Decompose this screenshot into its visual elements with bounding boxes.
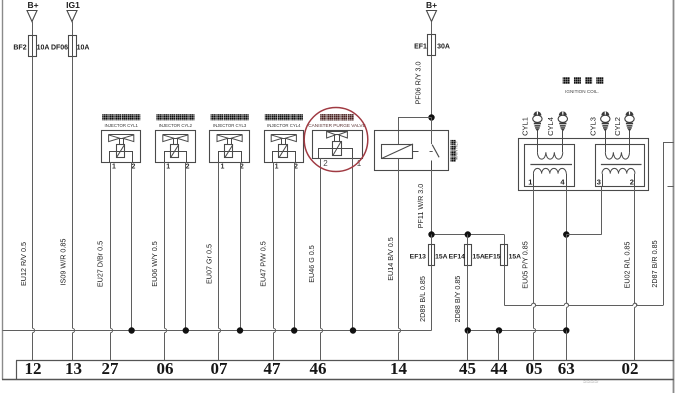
fuse EF15 15A [504, 235, 506, 246]
wire stub to frame edge [668, 186, 674, 188]
injector CYL2 (第二缸喷油器) [156, 114, 162, 120]
frame right border [673, 0, 675, 393]
ignition coil T1 (cylinders 1 and 4) [525, 145, 575, 187]
svg-text:EF15: EF15 [484, 254, 500, 261]
wire EU12 R/V 0.5 (fuse BF2 to ECU pin 12) [32, 57, 34, 329]
junction node bus/pin2 wire 3 [237, 327, 243, 333]
fuse EF1 30A [428, 35, 436, 56]
spark plug CYL3 [601, 111, 609, 115]
svg-text:44: 44 [491, 359, 509, 378]
wire 2D87 B/R 0.85 (up to frame edge) [663, 142, 665, 305]
svg-text:06: 06 [157, 359, 174, 378]
junction node bus/2D88 [465, 327, 471, 333]
svg-text:1: 1 [528, 178, 532, 187]
svg-text:1: 1 [112, 164, 116, 171]
ignition coil assembly outer box [519, 139, 649, 191]
svg-text:2D88 B/Y 0.85: 2D88 B/Y 0.85 [453, 276, 462, 323]
svg-text:2: 2 [131, 164, 135, 171]
fuse EF14 15A [467, 235, 469, 246]
junction node bus/pin2 wire 2 [183, 327, 189, 333]
fuse DF06 10A [69, 36, 77, 57]
wire pin1 of injector CYL4 down to ECU [273, 162, 275, 328]
wire PF11 W/R 3.0 (relay switch output) [431, 170, 433, 235]
svg-text:27: 27 [102, 359, 120, 378]
svg-text:15A: 15A [509, 254, 522, 261]
svg-text:EU12 R/V 0.5: EU12 R/V 0.5 [19, 242, 28, 286]
svg-text:EU02 R/L 0.85: EU02 R/L 0.85 [623, 242, 632, 289]
svg-text:2: 2 [323, 159, 328, 168]
svg-text:B+: B+ [426, 0, 437, 10]
svg-text:PF06 R/Y 3.0: PF06 R/Y 3.0 [414, 61, 423, 104]
wire pin2 of injector CYL3 to supply bus [240, 162, 242, 330]
svg-text:05: 05 [526, 359, 543, 378]
junction node bus/pin44 [496, 327, 502, 333]
svg-text:≈≈≈≈: ≈≈≈≈ [582, 379, 599, 386]
svg-text:IG1: IG1 [66, 0, 80, 10]
supply bus (right segment) [468, 330, 567, 332]
svg-text:2: 2 [186, 164, 190, 171]
frame left border [2, 0, 4, 331]
spark plug CYL4 [559, 111, 567, 115]
injector CYL4 (第四缸喷油器) [265, 114, 271, 120]
svg-text:14: 14 [390, 359, 408, 378]
wire branch to relay coil [398, 117, 432, 119]
wire bus to ECU pin 44 [498, 331, 500, 361]
svg-text:CANISTER PURGE VALVE: CANISTER PURGE VALVE [308, 123, 365, 128]
junction node bus/pin2 wire 5 [350, 327, 356, 333]
red highlight circle around canister purge valve [304, 108, 368, 172]
svg-text:IGNITION COIL.: IGNITION COIL. [565, 89, 599, 94]
junction node bus/pin2 wire 4 [291, 327, 297, 333]
svg-text:BF2: BF2 [13, 45, 26, 52]
fuse EF13 15A [431, 235, 433, 246]
svg-text:CYL2: CYL2 [613, 117, 622, 136]
svg-text:2D89 B/L 0.85: 2D89 B/L 0.85 [418, 276, 427, 322]
svg-text:15A: 15A [472, 254, 485, 261]
svg-text:CYL4: CYL4 [546, 117, 555, 136]
svg-text:EU14 B/V 0.5: EU14 B/V 0.5 [386, 237, 395, 281]
svg-text:1: 1 [166, 164, 170, 171]
svg-text:INJECTOR CYL4: INJECTOR CYL4 [267, 123, 301, 128]
ECU connector band [16, 360, 674, 362]
svg-text:EU46 G 0.5: EU46 G 0.5 [307, 245, 316, 283]
wire from EF15 down and right to 2D87 [504, 266, 506, 306]
svg-text:EU06 W/Y 0.5: EU06 W/Y 0.5 [150, 241, 159, 286]
wire pin2 of injector CYL2 to supply bus [185, 162, 187, 330]
wire pin1 of injector CYL3 down to ECU [218, 162, 220, 328]
label 点火线圈 IGNITION COIL [563, 77, 570, 84]
svg-text:07: 07 [211, 359, 229, 378]
wire bus left end drop [2, 331, 4, 380]
svg-text:EF14: EF14 [449, 254, 465, 261]
svg-text:PF11 W/R 3.0: PF11 W/R 3.0 [416, 184, 425, 229]
svg-text:DF06: DF06 [51, 45, 68, 52]
svg-text:45: 45 [459, 359, 476, 378]
svg-text:46: 46 [310, 359, 327, 378]
svg-text:EU05 P/Y 0.85: EU05 P/Y 0.85 [521, 241, 530, 288]
svg-text:INJECTOR CYL1: INJECTOR CYL1 [105, 123, 139, 128]
svg-text:15A: 15A [435, 254, 448, 261]
wire bus to ECU pin 63 [566, 331, 568, 361]
junction node bus/pin2 wire 1 [128, 327, 134, 333]
injector CYL3 (第三缸喷油器) [211, 114, 217, 120]
wire fuse distribution rail [432, 234, 505, 236]
junction node at relay supply [428, 114, 434, 120]
svg-text:EF13: EF13 [410, 254, 426, 261]
fuse BF2 10A [29, 36, 37, 57]
relay U1: main relay (主继电器 MAIN RLY) [375, 131, 449, 171]
injector CYL1 (第一缸喷油器) [102, 114, 108, 120]
svg-text:13: 13 [65, 359, 82, 378]
svg-text:1: 1 [220, 164, 224, 171]
wire B+ to fuse EF1 [431, 22, 433, 35]
svg-text:1: 1 [275, 164, 279, 171]
wire from IG1 to fuse DF06 [72, 22, 74, 36]
svg-text:IS09 W/R 0.85: IS09 W/R 0.85 [59, 239, 68, 286]
wire pin1 of injector CYL2 down to ECU [164, 162, 166, 328]
svg-text:2: 2 [630, 178, 634, 187]
wire from B+ to fuse BF2 [32, 22, 34, 36]
wire bus to ECU pin 45 [467, 331, 469, 361]
wire coil T1 pin4 / T2 pin3 common to ECU pin 63 [566, 187, 568, 235]
svg-text:02: 02 [622, 359, 639, 378]
svg-text:EU07 Gr 0.5: EU07 Gr 0.5 [205, 244, 214, 284]
wire pin2 of injector CYL1 to supply bus [131, 162, 133, 330]
wire IS09 W/R 0.85 (fuse DF06 to ECU pin 13) [72, 57, 74, 329]
junction node rail/EF13 [428, 231, 434, 237]
wire EU02 R/L 0.85 (coil T2 pin2 to ECU pin 02) [634, 187, 636, 303]
svg-text:CYL3: CYL3 [589, 117, 598, 136]
wire valve pin1 to supply bus [352, 158, 354, 331]
wire pin1 of injector CYL1 down to ECU [110, 162, 112, 328]
junction node rail/EF14 [465, 231, 471, 237]
svg-text:CYL1: CYL1 [521, 117, 530, 136]
spark plug CYL1 [533, 111, 541, 115]
wire pin2 of injector CYL4 to supply bus [294, 162, 296, 330]
junction node bus/pin63 [563, 327, 569, 333]
svg-text:10A: 10A [37, 45, 50, 52]
svg-text:EU47 P/W 0.5: EU47 P/W 0.5 [259, 241, 268, 287]
svg-text:INJECTOR CYL3: INJECTOR CYL3 [213, 123, 247, 128]
spark plug CYL2 [626, 111, 634, 115]
wire EU05 P/Y 0.85 (coil T1 pin1 to ECU pin 05) [533, 187, 535, 303]
relay label 主继电器 MAIN RLY (vertical) [451, 140, 456, 145]
svg-text:B+: B+ [27, 0, 38, 10]
wire relay coil to ECU pin 14, EU14 B/V 0.5 [398, 159, 400, 329]
wire 2D89 B/L 0.85 (EF13 to bus) [431, 266, 433, 331]
svg-text:MAIN RLY: MAIN RLY [454, 141, 459, 161]
svg-text:2D87 B/R 0.85: 2D87 B/R 0.85 [650, 240, 659, 287]
solenoid valve: canister purge valve (碳罐电磁阀) [320, 114, 326, 120]
supply bus (left segment) [2, 330, 432, 332]
svg-text:12: 12 [25, 359, 42, 378]
svg-text:30A: 30A [437, 44, 450, 51]
ignition coil T2 (cylinders 3 and 2) [596, 145, 645, 187]
svg-text:EF1: EF1 [414, 44, 427, 51]
svg-text:47: 47 [264, 359, 282, 378]
svg-text:63: 63 [558, 359, 575, 378]
wire 2D88 B/Y 0.85 (EF14 to ECU pin 45) [467, 266, 469, 331]
svg-text:EU27 D/Br 0.5: EU27 D/Br 0.5 [96, 241, 105, 287]
svg-text:INJECTOR CYL2: INJECTOR CYL2 [159, 123, 193, 128]
wire PF06 R/Y 3.0 (fuse EF1 to relay) [431, 56, 433, 118]
svg-text:10A: 10A [77, 45, 90, 52]
svg-text:3: 3 [597, 178, 601, 187]
wire EU46 G 0.5 (valve pin2 to ECU pin 46) [320, 158, 322, 328]
